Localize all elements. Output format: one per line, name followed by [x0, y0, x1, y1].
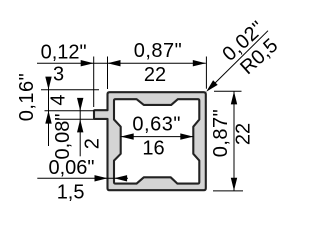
cavity width dimension line	[121, 136, 194, 138]
arrowhead pointing right at tab face ext line	[81, 60, 94, 66]
arrowhead pointing right at top-right corner ext line	[193, 60, 206, 66]
extension line from tab left face (for 0,12"/3 dim)	[93, 57, 95, 108]
vertical dimension line for 0,08"/2	[79, 99, 81, 156]
extension line at tab bottom edge	[57, 118, 95, 120]
top horizontal dimension line	[37, 62, 206, 64]
arrowhead pointing down at tab top ext line	[77, 98, 83, 111]
arrowhead pointing down (right dim)	[231, 178, 237, 191]
svg-text:0,06": 0,06"	[48, 157, 94, 179]
arrowhead pointing up at tab bottom ext line	[77, 119, 83, 132]
svg-text:0,87": 0,87"	[210, 109, 232, 158]
extension line from top-left corner (shared by 0,12"/3 and 0,87"/22 dims)	[107, 57, 109, 90]
svg-text:16: 16	[142, 138, 164, 160]
arrowhead pointing up at tab top ext line	[45, 111, 51, 124]
arrowhead pointing left at top-left corner ext line	[108, 60, 121, 66]
profile cross-section body (22x22 square tube, wall 1.5, inner cavity with centering bumps, locating tab on left side)	[94, 92, 206, 190]
right vertical dimension line	[233, 91, 235, 190]
arrowhead pointing left at left bump face	[121, 133, 134, 139]
svg-text:1,5: 1,5	[57, 181, 85, 203]
svg-text:0,87": 0,87"	[134, 40, 183, 62]
extension line from top-right corner (for 0,87"/22 dim)	[205, 57, 207, 89]
arrowhead pointing right at outer wall face	[95, 175, 108, 181]
svg-text:22: 22	[232, 123, 254, 145]
arrowhead pointing right at right bump face	[180, 133, 193, 139]
svg-text:0,08": 0,08"	[52, 113, 74, 159]
wall thickness leader line	[37, 177, 128, 179]
svg-text:3: 3	[53, 63, 64, 85]
extension line from bottom-right corner (right dim)	[213, 190, 243, 192]
svg-text:0,16": 0,16"	[16, 73, 38, 122]
arrowhead pointing down at top edge ext line	[45, 77, 51, 90]
svg-text:0,63": 0,63"	[132, 113, 181, 135]
extension line from top-right corner (right dim)	[214, 90, 242, 92]
extension line at profile top edge level (for 0,16"/4 dim)	[41, 89, 99, 91]
R0,5 leader line	[208, 31, 268, 90]
arrowhead pointing up (right dim)	[231, 91, 237, 104]
extension line at tab top edge	[45, 110, 95, 112]
vertical dimension line for 0,16"/4	[48, 77, 50, 146]
svg-text:2: 2	[81, 138, 103, 149]
svg-text:0,12": 0,12"	[41, 41, 87, 63]
arrowhead pointing left at inner wall face	[114, 175, 127, 181]
R0,5 leader arrowhead at top-right corner	[206, 80, 218, 92]
svg-text:4: 4	[47, 94, 69, 105]
svg-text:22: 22	[144, 64, 166, 86]
